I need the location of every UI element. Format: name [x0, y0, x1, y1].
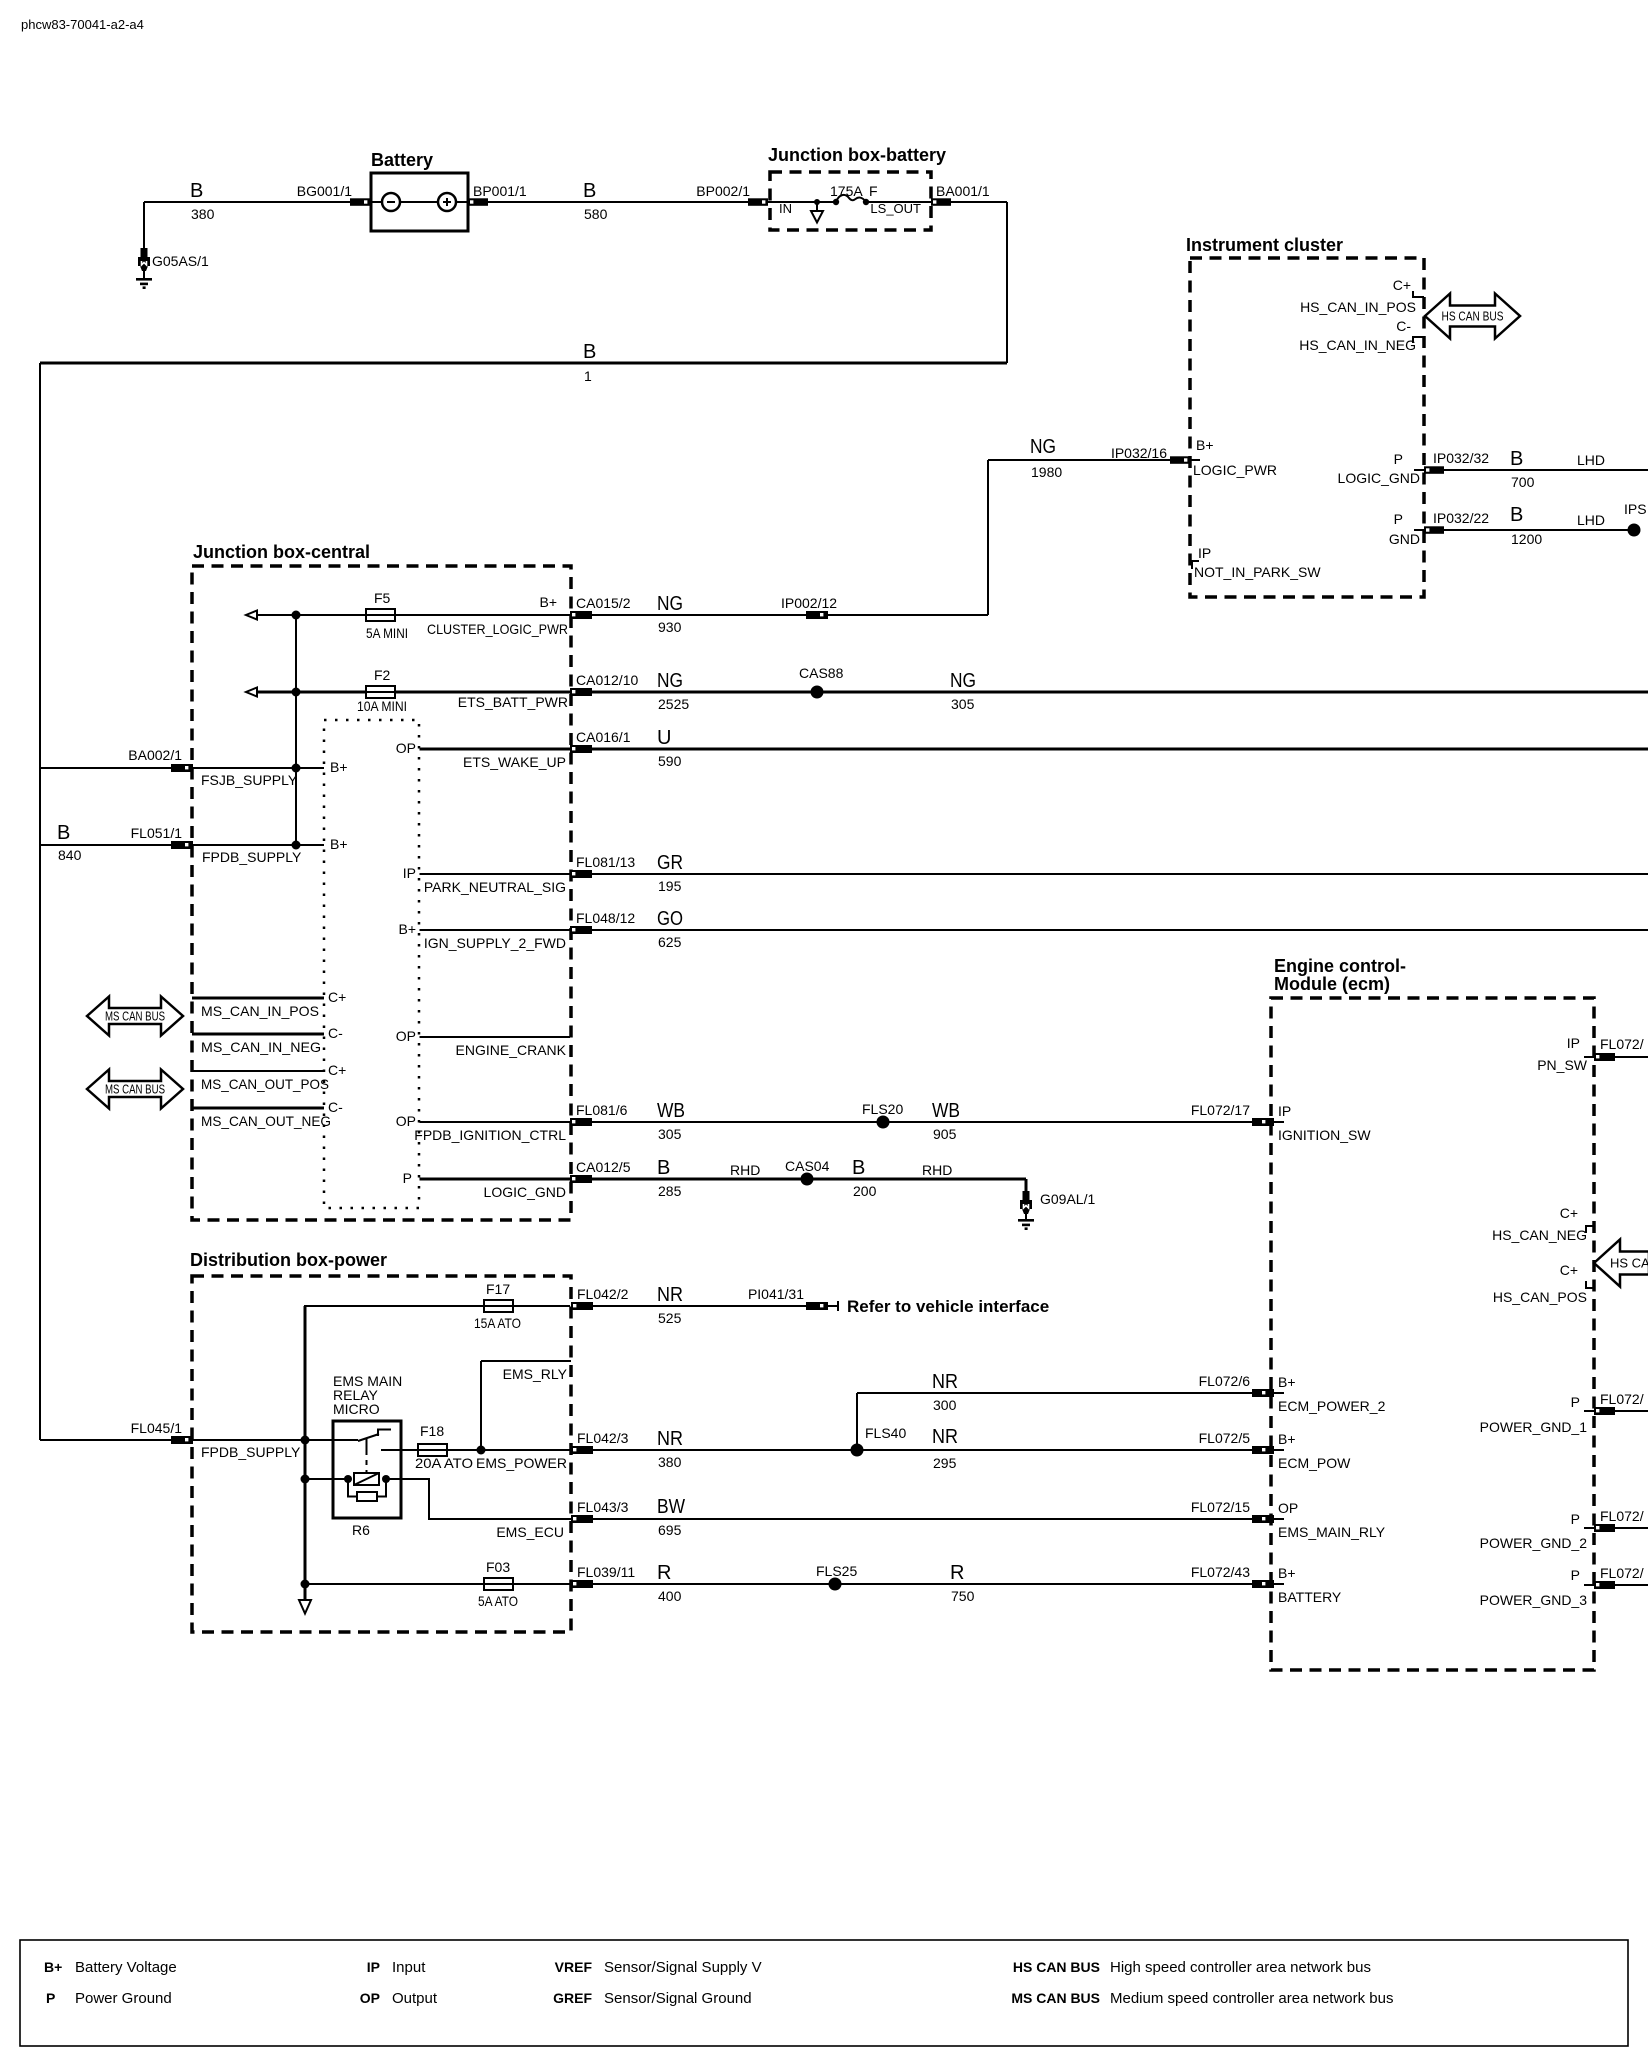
- svg-text:Distribution box-power: Distribution box-power: [190, 1250, 387, 1270]
- legend HS CAN BUS: [1013, 1959, 1371, 1976]
- ground G05AS/1: [136, 248, 209, 289]
- fuse F03 5A ATO: [478, 1559, 518, 1609]
- svg-text:IP: IP: [1198, 545, 1211, 561]
- inner module (dotted box): [324, 720, 419, 1208]
- connector FL081/6: [570, 1102, 628, 1126]
- svg-text:B+: B+: [330, 836, 348, 852]
- svg-text:BA001/1: BA001/1: [936, 183, 990, 199]
- terminal IP PN_SW with connector FL072/: [1537, 1035, 1648, 1073]
- ground G09AL/1: [1018, 1191, 1095, 1230]
- svg-text:CA015/2: CA015/2: [576, 595, 631, 611]
- fuse F2 10A MINI: [357, 667, 407, 714]
- terminal B+ ECM_POWER_2: [1278, 1374, 1386, 1414]
- wire into fuse: [768, 201, 836, 203]
- svg-text:IP: IP: [1278, 1103, 1291, 1119]
- svg-text:VREF: VREF: [555, 1959, 593, 1975]
- svg-text:1200: 1200: [1511, 531, 1542, 547]
- svg-text:FL043/3: FL043/3: [577, 1499, 629, 1515]
- svg-text:RHD: RHD: [730, 1162, 760, 1178]
- terminal P POWER_GND_2: [1480, 1508, 1648, 1551]
- svg-text:C+: C+: [1393, 277, 1411, 293]
- svg-text:FPDB_SUPPLY: FPDB_SUPPLY: [202, 849, 302, 865]
- connector FL045/1: [131, 1420, 193, 1444]
- svg-text:FL072/17: FL072/17: [1191, 1102, 1250, 1118]
- svg-text:FL048/12: FL048/12: [576, 910, 635, 926]
- svg-text:300: 300: [933, 1397, 957, 1413]
- svg-text:C+: C+: [1560, 1262, 1578, 1278]
- relay coil: [301, 1473, 572, 1519]
- svg-text:FLS40: FLS40: [865, 1425, 906, 1441]
- svg-text:GO: GO: [657, 908, 683, 930]
- row ETS_WAKE_UP : terminal OP: [396, 740, 570, 770]
- svg-text:FL039/11: FL039/11: [577, 1564, 635, 1580]
- wire U 590: [592, 727, 1648, 769]
- svg-text:20A ATO: 20A ATO: [415, 1455, 473, 1471]
- svg-text:F18: F18: [420, 1423, 444, 1439]
- svg-text:625: 625: [658, 934, 682, 950]
- legend VREF: [555, 1959, 762, 1976]
- svg-text:FPDB_IGNITION_CTRL: FPDB_IGNITION_CTRL: [414, 1127, 566, 1143]
- svg-text:15A ATO: 15A ATO: [474, 1315, 521, 1331]
- svg-text:HS CAN BUS: HS CAN BUS: [1442, 309, 1504, 324]
- svg-text:F03: F03: [486, 1559, 510, 1575]
- splice CAS88: [799, 665, 844, 699]
- svg-text:R6: R6: [352, 1522, 370, 1538]
- svg-text:P: P: [1571, 1511, 1580, 1527]
- junction box-battery (dashed box): [768, 145, 946, 230]
- connector FL072/43: [1191, 1564, 1284, 1588]
- svg-text:POWER_GND_1: POWER_GND_1: [1480, 1419, 1588, 1435]
- svg-text:Sensor/Signal Supply V: Sensor/Signal Supply V: [604, 1959, 762, 1976]
- svg-text:IPS: IPS: [1624, 501, 1647, 517]
- distribution box-power (dashed box): [190, 1250, 571, 1632]
- terminal IP NOT_IN_PARK_SW: [1192, 545, 1321, 580]
- connector FL072/5: [1199, 1430, 1284, 1454]
- svg-text:B+: B+: [398, 921, 416, 937]
- svg-text:FL072/5: FL072/5: [1199, 1430, 1251, 1446]
- svg-text:P: P: [1571, 1394, 1580, 1410]
- connector FL042/3: [571, 1430, 629, 1454]
- svg-text:MS CAN BUS: MS CAN BUS: [1011, 1990, 1100, 2006]
- svg-text:380: 380: [658, 1454, 682, 1470]
- svg-text:F5: F5: [374, 590, 391, 606]
- wire B 1200 LHD to splice IPS: [1444, 501, 1647, 547]
- svg-text:Refer to vehicle interface: Refer to vehicle interface: [847, 1297, 1049, 1316]
- terminal B+ BATTERY: [1278, 1565, 1342, 1605]
- svg-text:RHD: RHD: [922, 1162, 952, 1178]
- terminal C+ MS_CAN_IN_POS: [192, 989, 346, 1019]
- terminal B+ LOGIC_PWR: [1190, 437, 1277, 478]
- svg-text:B+: B+: [1278, 1431, 1296, 1447]
- terminal C- MS_CAN_IN_NEG: [192, 1025, 343, 1055]
- svg-text:G05AS/1: G05AS/1: [152, 253, 209, 269]
- terminal C- HS_CAN_IN_NEG: [1299, 318, 1424, 353]
- svg-text:FLS25: FLS25: [816, 1563, 857, 1579]
- connector FL043/3: [571, 1499, 629, 1523]
- svg-text:B+: B+: [44, 1959, 62, 1975]
- connector CA016/1: [570, 729, 631, 753]
- row ENGINE_CRANK : terminal OP: [396, 1028, 570, 1058]
- junction box-central (dashed box): [192, 542, 571, 1220]
- svg-text:ETS_BATT_PWR: ETS_BATT_PWR: [458, 694, 568, 710]
- svg-text:MS CAN BUS: MS CAN BUS: [105, 1009, 165, 1024]
- splice FLS25: [816, 1563, 857, 1591]
- svg-text:MS CAN BUS: MS CAN BUS: [105, 1082, 165, 1097]
- svg-text:195: 195: [658, 878, 682, 894]
- svg-text:FL072/: FL072/: [1600, 1391, 1644, 1407]
- svg-text:840: 840: [58, 847, 82, 863]
- svg-text:HS_CAN_IN_NEG: HS_CAN_IN_NEG: [1299, 337, 1416, 353]
- svg-text:FL051/1: FL051/1: [131, 825, 183, 841]
- terminal C+ MS_CAN_OUT_POS: [192, 1062, 346, 1092]
- svg-text:B+: B+: [539, 594, 557, 610]
- svg-text:NG: NG: [1030, 436, 1056, 458]
- connector CA015/2: [570, 595, 631, 619]
- svg-text:PARK_NEUTRAL_SIG: PARK_NEUTRAL_SIG: [424, 879, 566, 895]
- legend B+ Battery Voltage: [44, 1959, 177, 1976]
- connector FL051/1: [131, 825, 193, 849]
- svg-text:NR: NR: [657, 1284, 683, 1306]
- svg-text:Junction box-central: Junction box-central: [193, 542, 370, 562]
- wire NR 295: [932, 1426, 958, 1471]
- terminal B+ CLUSTER_LOGIC_PWR: [427, 594, 568, 637]
- svg-text:POWER_GND_2: POWER_GND_2: [1480, 1535, 1588, 1551]
- svg-text:LHD: LHD: [1577, 512, 1605, 528]
- legend MS CAN BUS: [1011, 1990, 1393, 2007]
- wire NG 1980: [988, 436, 1170, 615]
- svg-text:200: 200: [853, 1183, 877, 1199]
- svg-text:FLS20: FLS20: [862, 1101, 903, 1117]
- svg-text:Input: Input: [392, 1959, 426, 1976]
- svg-text:OP: OP: [396, 1113, 416, 1129]
- splice FLS40: [851, 1425, 907, 1457]
- svg-text:EMS_POWER: EMS_POWER: [476, 1455, 567, 1471]
- svg-text:B+: B+: [1278, 1374, 1296, 1390]
- svg-text:HS CA: HS CA: [1610, 1256, 1648, 1271]
- connector BG001/1: [297, 183, 370, 206]
- relay label EMS MAIN RELAY MICRO: [333, 1373, 402, 1417]
- terminal C+ HS_CAN_IN_POS: [1300, 277, 1424, 315]
- svg-text:WB: WB: [657, 1100, 685, 1122]
- svg-text:IP: IP: [403, 865, 416, 881]
- svg-text:MS_CAN_OUT_POS: MS_CAN_OUT_POS: [201, 1076, 329, 1092]
- svg-text:700: 700: [1511, 474, 1535, 490]
- svg-text:GREF: GREF: [553, 1990, 592, 2006]
- wire NG 2525: [592, 670, 1648, 712]
- svg-text:FL081/6: FL081/6: [576, 1102, 628, 1118]
- wire GR 195: [592, 852, 1648, 894]
- internal feed bus: [304, 1306, 307, 1600]
- svg-text:Power Ground: Power Ground: [75, 1990, 172, 2007]
- svg-text:LS_OUT: LS_OUT: [870, 201, 921, 216]
- row CLUSTER_LOGIC_PWR: [246, 611, 570, 620]
- svg-text:LOGIC_GND: LOGIC_GND: [1338, 470, 1420, 486]
- wire FPDB_SUPPLY to relay: [40, 1436, 358, 1461]
- svg-text:MS_CAN_IN_NEG: MS_CAN_IN_NEG: [201, 1039, 321, 1055]
- terminal C- MS_CAN_OUT_NEG: [192, 1099, 343, 1129]
- connector IP032/16: [1111, 445, 1190, 464]
- svg-text:IGN_SUPPLY_2_FWD: IGN_SUPPLY_2_FWD: [424, 935, 566, 951]
- svg-text:OP: OP: [360, 1990, 380, 2006]
- svg-text:ETS_WAKE_UP: ETS_WAKE_UP: [463, 754, 566, 770]
- svg-text:P: P: [46, 1990, 55, 2006]
- svg-text:NR: NR: [932, 1371, 958, 1393]
- svg-text:Sensor/Signal Ground: Sensor/Signal Ground: [604, 1990, 752, 2007]
- connector FL081/13: [570, 854, 635, 878]
- svg-text:B+: B+: [330, 759, 348, 775]
- fuse F17 15A ATO: [474, 1281, 521, 1331]
- fuse 175A F (strip fuse): [830, 183, 931, 205]
- svg-text:10A MINI: 10A MINI: [357, 698, 407, 714]
- connector IP002/12 (inline): [781, 595, 988, 619]
- svg-text:B: B: [190, 180, 203, 202]
- EMS_RLY branch: [481, 1361, 571, 1450]
- svg-text:GR: GR: [657, 852, 683, 874]
- row ETS_BATT_PWR: [246, 688, 570, 697]
- relay switch contact: [358, 1430, 418, 1473]
- svg-text:IP032/16: IP032/16: [1111, 445, 1167, 461]
- instrument cluster (dashed box): [1186, 235, 1424, 597]
- svg-text:NR: NR: [657, 1428, 683, 1450]
- wire EMS_POWER: [447, 1446, 571, 1472]
- wire NG 930: [592, 593, 806, 635]
- svg-text:C-: C-: [328, 1025, 343, 1041]
- svg-text:BP002/1: BP002/1: [696, 183, 750, 199]
- wire GO 625: [592, 908, 1648, 950]
- svg-text:BA002/1: BA002/1: [128, 747, 182, 763]
- HS CAN BUS arrow (ecm): [1594, 1240, 1648, 1287]
- svg-text:GND: GND: [1389, 531, 1420, 547]
- svg-text:U: U: [657, 727, 671, 749]
- svg-text:5A MINI: 5A MINI: [366, 625, 408, 641]
- svg-text:Medium speed controller area n: Medium speed controller area network bus: [1110, 1990, 1393, 2007]
- svg-text:590: 590: [658, 753, 682, 769]
- connector BP002/1: [696, 183, 768, 206]
- svg-text:OP: OP: [1278, 1500, 1298, 1516]
- connector PI041/31: [748, 1286, 838, 1311]
- wire NR 380: [593, 1428, 1252, 1470]
- connector CA012/5: [570, 1159, 631, 1183]
- wire NR 300 branch: [857, 1371, 1252, 1450]
- svg-text:P: P: [1571, 1567, 1580, 1583]
- terminal P POWER_GND_1: [1480, 1391, 1648, 1435]
- svg-text:400: 400: [658, 1588, 682, 1604]
- svg-text:2525: 2525: [658, 696, 689, 712]
- svg-text:BATTERY: BATTERY: [1278, 1589, 1342, 1605]
- svg-text:B+: B+: [1196, 437, 1214, 453]
- svg-text:FL072/: FL072/: [1600, 1508, 1644, 1524]
- svg-text:525: 525: [658, 1310, 682, 1326]
- svg-text:IP032/22: IP032/22: [1433, 510, 1489, 526]
- svg-text:FL072/15: FL072/15: [1191, 1499, 1250, 1515]
- svg-text:EMS_RLY: EMS_RLY: [503, 1366, 568, 1382]
- svg-text:CAS04: CAS04: [785, 1158, 830, 1174]
- svg-text:LOGIC_GND: LOGIC_GND: [484, 1184, 566, 1200]
- svg-text:580: 580: [584, 206, 608, 222]
- svg-text:CA016/1: CA016/1: [576, 729, 631, 745]
- svg-text:EMS_ECU: EMS_ECU: [496, 1524, 564, 1540]
- svg-text:High speed controller area net: High speed controller area network bus: [1110, 1959, 1371, 1976]
- svg-text:1980: 1980: [1031, 464, 1062, 480]
- MS CAN BUS arrow 2: [87, 1070, 183, 1109]
- svg-text:PN_SW: PN_SW: [1537, 1057, 1588, 1073]
- connector FL072/15: [1191, 1499, 1284, 1523]
- wire BW 695: [593, 1496, 1252, 1538]
- legend GREF: [553, 1990, 751, 2007]
- wire R 750: [950, 1562, 975, 1604]
- svg-text:380: 380: [191, 206, 215, 222]
- svg-text:285: 285: [658, 1183, 682, 1199]
- splice CAS04: [785, 1158, 830, 1186]
- svg-text:FL045/1: FL045/1: [131, 1420, 183, 1436]
- svg-text:5A ATO: 5A ATO: [478, 1593, 518, 1609]
- svg-text:905: 905: [933, 1126, 957, 1142]
- wire WB 905: [932, 1100, 960, 1142]
- svg-text:HS_CAN_POS: HS_CAN_POS: [1493, 1289, 1587, 1305]
- svg-text:CAS88: CAS88: [799, 665, 844, 681]
- svg-text:1: 1: [584, 368, 592, 384]
- svg-text:HS CAN BUS: HS CAN BUS: [1013, 1959, 1100, 1975]
- wire R 400: [593, 1562, 1252, 1604]
- row PARK_NEUTRAL_SIG : terminal IP: [403, 865, 570, 895]
- terminal P POWER_GND_3: [1480, 1565, 1648, 1608]
- svg-text:HS_CAN_NEG: HS_CAN_NEG: [1492, 1227, 1587, 1243]
- wire FSJB supply row: [40, 759, 348, 788]
- svg-text:ECM_POWER_2: ECM_POWER_2: [1278, 1398, 1386, 1414]
- svg-text:FL042/2: FL042/2: [577, 1286, 629, 1302]
- engine control module ecm (dashed box): [1271, 956, 1594, 1670]
- connector BP001/1: [468, 183, 527, 206]
- terminal B+ ECM_POW: [1278, 1431, 1351, 1471]
- wire B 580: [488, 180, 748, 222]
- svg-text:305: 305: [658, 1126, 682, 1142]
- svg-text:WB: WB: [932, 1100, 960, 1122]
- svg-text:CA012/10: CA012/10: [576, 672, 638, 688]
- svg-text:B: B: [852, 1157, 865, 1179]
- connector FL072/6: [1199, 1373, 1284, 1397]
- legend P Power Ground: [46, 1990, 172, 2007]
- row F17 feed: [304, 1305, 570, 1307]
- svg-text:ENGINE_CRANK: ENGINE_CRANK: [456, 1042, 567, 1058]
- MS CAN BUS arrow 1: [87, 997, 183, 1036]
- terminal P GND with connector IP032/22: [1389, 510, 1489, 547]
- svg-text:LHD: LHD: [1577, 452, 1605, 468]
- svg-text:phcw83-70041-a2-a4: phcw83-70041-a2-a4: [21, 17, 144, 32]
- svg-text:G09AL/1: G09AL/1: [1040, 1191, 1095, 1207]
- wire B 700 LHD: [1444, 448, 1648, 490]
- connector FL039/11: [571, 1564, 635, 1588]
- svg-text:Engine control-: Engine control-: [1274, 956, 1406, 976]
- connector BA001/1: [931, 183, 990, 206]
- svg-text:930: 930: [658, 619, 682, 635]
- terminal C+ HS_CAN_POS: [1493, 1262, 1594, 1305]
- connector FL042/2: [571, 1286, 629, 1310]
- svg-text:IP: IP: [1567, 1035, 1580, 1051]
- svg-text:BG001/1: BG001/1: [297, 183, 352, 199]
- legend IP Input: [367, 1959, 426, 1976]
- svg-text:IP002/12: IP002/12: [781, 595, 837, 611]
- svg-text:B: B: [657, 1157, 670, 1179]
- svg-text:C+: C+: [328, 1062, 346, 1078]
- svg-text:Battery Voltage: Battery Voltage: [75, 1959, 177, 1976]
- svg-text:NOT_IN_PARK_SW: NOT_IN_PARK_SW: [1194, 564, 1321, 580]
- HS CAN BUS arrow (cluster): [1425, 294, 1520, 339]
- wire WB 305: [592, 1100, 1252, 1142]
- terminal IP IGNITION_SW: [1278, 1103, 1371, 1143]
- svg-text:FL042/3: FL042/3: [577, 1430, 629, 1446]
- svg-text:P: P: [1394, 511, 1403, 527]
- svg-text:IP: IP: [367, 1959, 380, 1975]
- svg-text:NG: NG: [950, 670, 976, 692]
- wire B 840: [40, 822, 171, 863]
- svg-text:HS_CAN_IN_POS: HS_CAN_IN_POS: [1300, 299, 1416, 315]
- svg-text:B: B: [1510, 448, 1523, 470]
- legend box: [20, 1940, 1628, 2046]
- svg-text:P: P: [1394, 451, 1403, 467]
- terminal OP EMS_MAIN_RLY: [1278, 1500, 1386, 1540]
- connector FL048/12: [570, 910, 635, 934]
- connector BA002/1: [128, 747, 193, 772]
- svg-text:FL081/13: FL081/13: [576, 854, 635, 870]
- svg-text:ECM_POW: ECM_POW: [1278, 1455, 1351, 1471]
- relay R6 (box): [333, 1421, 401, 1538]
- svg-text:FPDB_SUPPLY: FPDB_SUPPLY: [201, 1444, 301, 1460]
- svg-text:FSJB_SUPPLY: FSJB_SUPPLY: [201, 772, 298, 788]
- fuse F18 20A ATO: [415, 1423, 473, 1471]
- svg-text:OP: OP: [396, 1028, 416, 1044]
- wire FPDB supply row: [193, 836, 348, 865]
- svg-text:FL072/: FL072/: [1600, 1036, 1644, 1052]
- connector FL072/17: [1191, 1102, 1284, 1126]
- svg-text:P: P: [403, 1170, 412, 1186]
- bus end arrow: [299, 1600, 311, 1614]
- svg-text:C+: C+: [1560, 1205, 1578, 1221]
- fuse F5 5A MINI: [366, 590, 408, 641]
- svg-text:FL072/: FL072/: [1600, 1565, 1644, 1581]
- terminal P LOGIC_GND with connector IP032/32: [1338, 450, 1490, 486]
- row IGN_SUPPLY_2_FWD : terminal B+: [398, 921, 570, 951]
- svg-text:Battery: Battery: [371, 150, 433, 170]
- svg-text:BW: BW: [657, 1496, 685, 1518]
- svg-text:FL072/6: FL072/6: [1199, 1373, 1251, 1389]
- svg-text:LOGIC_PWR: LOGIC_PWR: [1193, 462, 1277, 478]
- row LOGIC_GND : terminal P: [403, 1170, 570, 1200]
- svg-text:IGNITION_SW: IGNITION_SW: [1278, 1127, 1371, 1143]
- svg-text:CLUSTER_LOGIC_PWR: CLUSTER_LOGIC_PWR: [427, 621, 568, 637]
- svg-text:FL072/43: FL072/43: [1191, 1564, 1250, 1580]
- splice FLS20: [862, 1101, 903, 1129]
- svg-text:IP032/32: IP032/32: [1433, 450, 1489, 466]
- svg-text:695: 695: [658, 1522, 682, 1538]
- svg-text:F: F: [869, 183, 878, 199]
- terminal C+ HS_CAN_NEG: [1492, 1205, 1594, 1243]
- svg-text:305: 305: [951, 696, 975, 712]
- svg-text:Module (ecm): Module (ecm): [1274, 974, 1390, 994]
- svg-text:B: B: [583, 180, 596, 202]
- svg-text:POWER_GND_3: POWER_GND_3: [1480, 1592, 1588, 1608]
- svg-text:MICRO: MICRO: [333, 1401, 380, 1417]
- svg-text:NR: NR: [932, 1426, 958, 1448]
- tap with down arrow: [811, 199, 823, 223]
- legend OP Output: [360, 1990, 438, 2007]
- svg-text:B: B: [583, 341, 596, 363]
- wire NR 525: [593, 1284, 806, 1326]
- svg-text:NG: NG: [657, 593, 683, 615]
- svg-text:CA012/5: CA012/5: [576, 1159, 631, 1175]
- wire NG 305: [950, 670, 976, 712]
- svg-text:C-: C-: [1396, 318, 1411, 334]
- internal supply bus: [295, 615, 297, 845]
